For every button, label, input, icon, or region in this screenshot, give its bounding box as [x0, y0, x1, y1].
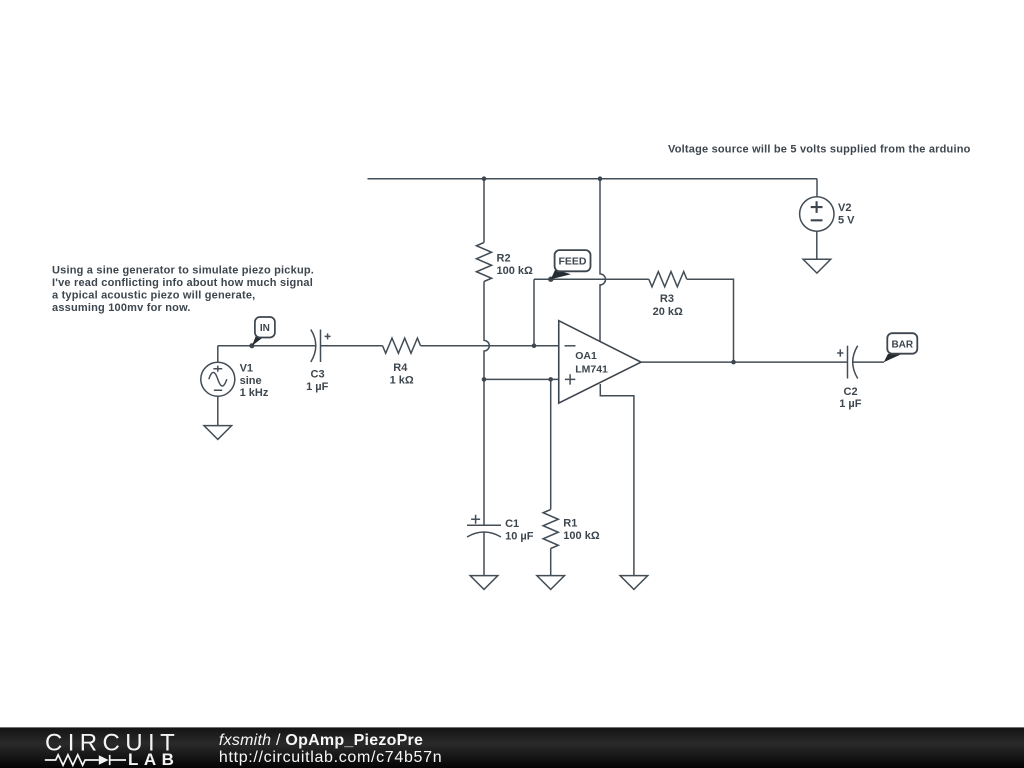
- ground under V2: [803, 259, 831, 273]
- logo resistor-diode glyph: [45, 755, 126, 766]
- wire R2 lower with hop over signal wire: [484, 282, 489, 380]
- svg-text:1 µF: 1 µF: [839, 398, 862, 410]
- resistor R4: [383, 338, 421, 353]
- svg-text:BAR: BAR: [891, 340, 913, 351]
- node IN junction: [249, 343, 254, 348]
- svg-text:LAB: LAB: [128, 750, 179, 768]
- footer bar: [0, 727, 1024, 768]
- svg-text:LM741: LM741: [575, 364, 608, 376]
- svg-text:sine: sine: [240, 375, 262, 387]
- wire R4 to inverting input: [421, 345, 559, 347]
- node output junction: [731, 360, 736, 365]
- wire R1 bottom lead: [550, 549, 552, 576]
- svg-text:5 V: 5 V: [838, 214, 855, 226]
- wire bias node vertical to C1: [483, 379, 485, 525]
- net flag BAR: [884, 333, 918, 362]
- ground under op-amp V-: [620, 576, 648, 590]
- svg-text:R4: R4: [393, 362, 408, 374]
- wire FEED horizontal: [534, 278, 649, 280]
- svg-text:C2: C2: [844, 386, 858, 398]
- wire C1 to ground: [483, 532, 485, 575]
- svg-text:V2: V2: [838, 202, 851, 214]
- resistor R1: [543, 510, 558, 549]
- svg-text:1 µF: 1 µF: [306, 381, 329, 393]
- wire V1 bottom lead: [217, 396, 219, 426]
- wire R3 to output corner: [687, 279, 734, 362]
- wire C3 to R4: [321, 345, 383, 347]
- svg-text:a typical acoustic piezo will: a typical acoustic piezo will generate,: [52, 290, 255, 302]
- ground under V1: [204, 426, 232, 440]
- svg-text:assuming 100mv for now.: assuming 100mv for now.: [52, 302, 191, 314]
- node R1 junction: [548, 377, 553, 382]
- op-amp OA1: [559, 321, 641, 403]
- node feedback junction on inverting input: [532, 343, 537, 348]
- node bias junction: [482, 377, 487, 382]
- svg-text:100 kΩ: 100 kΩ: [497, 265, 534, 277]
- net flag FEED: [551, 250, 591, 279]
- wire output: [641, 361, 848, 363]
- svg-text:OA1: OA1: [575, 350, 597, 362]
- wire V1 top lead: [217, 346, 219, 363]
- wire C2 to BAR: [853, 361, 884, 363]
- wire V2 bottom lead: [816, 231, 818, 259]
- voltage source V1: [201, 362, 235, 396]
- annotation left block: [52, 265, 314, 315]
- svg-text:fxsmith / OpAmp_PiezoPre: fxsmith / OpAmp_PiezoPre: [219, 732, 423, 749]
- svg-text:1 kΩ: 1 kΩ: [390, 374, 414, 386]
- wire V2 top lead: [816, 179, 818, 197]
- ground under R1: [537, 576, 565, 590]
- wire feedback from FEED corner down: [533, 279, 535, 346]
- resistor R2: [476, 243, 491, 282]
- capacitor C1: [467, 515, 501, 537]
- node FEED junction: [548, 277, 553, 282]
- wire op-amp V+ pin with hop over FEED wire: [600, 179, 606, 342]
- wire op-amp V- pin: [600, 384, 634, 576]
- svg-text:R2: R2: [497, 253, 511, 265]
- svg-text:1 kHz: 1 kHz: [240, 387, 269, 399]
- svg-text:100 kΩ: 100 kΩ: [563, 530, 600, 542]
- svg-text:C3: C3: [311, 369, 325, 381]
- svg-text:http://circuitlab.com/c74b57n: http://circuitlab.com/c74b57n: [219, 749, 442, 766]
- svg-text:20 kΩ: 20 kΩ: [653, 306, 683, 318]
- voltage source V2: [800, 197, 834, 231]
- svg-text:C1: C1: [505, 518, 519, 530]
- node supply rail junction R2: [482, 176, 487, 181]
- svg-text:IN: IN: [260, 323, 270, 334]
- svg-text:I've read conflicting info abo: I've read conflicting info about how muc…: [52, 277, 313, 289]
- svg-text:FEED: FEED: [558, 256, 586, 268]
- wire input signal segment: [218, 345, 316, 347]
- wire noninverting input: [484, 378, 559, 380]
- svg-text:R3: R3: [660, 293, 674, 305]
- net flag IN: [252, 317, 275, 346]
- svg-text:Voltage source will be 5 volts: Voltage source will be 5 volts supplied …: [668, 144, 971, 156]
- wire R1 top lead: [550, 379, 552, 509]
- capacitor C3: [311, 330, 331, 363]
- ground under C1: [470, 576, 498, 590]
- wire top supply rail: [368, 178, 818, 180]
- svg-text:V1: V1: [240, 362, 253, 374]
- svg-text:R1: R1: [563, 518, 577, 530]
- node supply rail junction V+: [598, 176, 603, 181]
- svg-text:10 µF: 10 µF: [505, 531, 534, 543]
- resistor R3: [649, 272, 687, 287]
- svg-text:Using a sine generator to simu: Using a sine generator to simulate piezo…: [52, 265, 314, 277]
- capacitor C2: [837, 346, 858, 379]
- wire R2 branch upper: [483, 179, 485, 243]
